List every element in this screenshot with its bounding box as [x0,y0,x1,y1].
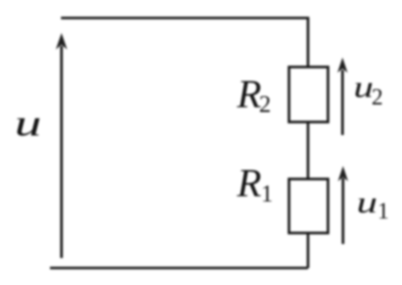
svg-text:R: R [236,72,261,117]
svg-text:1: 1 [261,182,273,208]
svg-text:u: u [15,104,42,145]
svg-text:u: u [357,185,378,220]
svg-text:2: 2 [372,85,384,110]
svg-text:u: u [354,69,374,104]
svg-text:1: 1 [378,199,390,224]
svg-text:R: R [236,161,261,206]
svg-text:2: 2 [259,92,271,118]
